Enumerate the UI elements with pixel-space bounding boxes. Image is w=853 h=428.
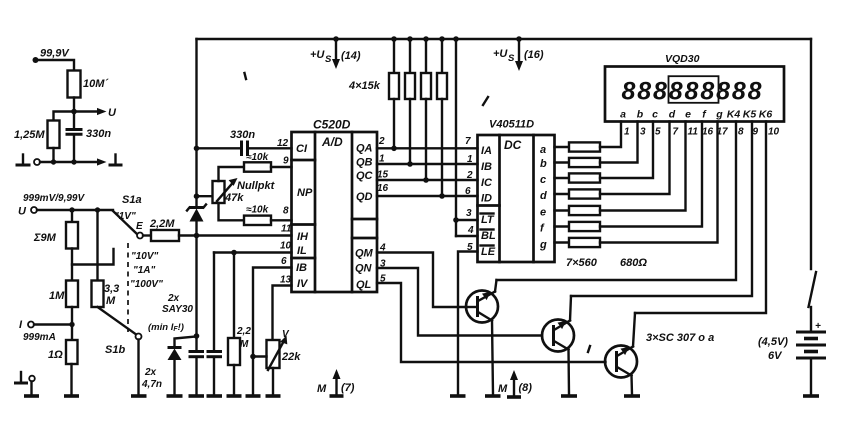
capacitor 4,7n a (141, 352, 204, 397)
op-amp U1 C520D A/D converter (292, 118, 378, 293)
svg-text:SAY30: SAY30 (162, 304, 193, 315)
svg-text:8: 8 (669, 78, 683, 106)
svg-text:V40511D: V40511D (489, 119, 534, 131)
potentiometer 22k (253, 329, 301, 396)
svg-text:7×560: 7×560 (566, 257, 598, 269)
wire pin 10 IL (214, 250, 292, 256)
svg-text:16: 16 (702, 127, 714, 138)
wire (37, 207, 113, 212)
wire node E to pin 11 (179, 233, 292, 239)
svg-text:2,2: 2,2 (236, 326, 251, 337)
svg-text:"100V": "100V" (130, 279, 163, 290)
svg-text:(16): (16) (524, 49, 544, 61)
svg-text:17: 17 (717, 127, 729, 138)
stray mark (588, 346, 590, 352)
display segment labels (620, 109, 772, 121)
svg-text:e: e (540, 207, 546, 219)
svg-text:12: 12 (277, 138, 289, 149)
svg-text:IA: IA (481, 145, 492, 157)
switch S1a position contacts (130, 251, 163, 290)
svg-text:S: S (325, 54, 332, 65)
svg-text:f: f (540, 223, 545, 235)
wire pin 6 IB (246, 268, 292, 397)
svg-text:DC: DC (504, 138, 522, 152)
svg-text:(7): (7) (341, 382, 355, 394)
svg-text:QN: QN (355, 263, 373, 275)
svg-text:8: 8 (738, 127, 744, 138)
svg-text:E: E (136, 221, 143, 232)
svg-text:A/D: A/D (321, 135, 343, 149)
svg-text:22k: 22k (281, 351, 301, 363)
svg-text:10: 10 (768, 127, 780, 138)
svg-text:IV: IV (297, 278, 309, 290)
transistor Q1 (466, 280, 501, 396)
svg-text:7: 7 (673, 127, 679, 138)
svg-text:1: 1 (624, 127, 630, 138)
svg-text:c: c (652, 109, 658, 121)
svg-text:f: f (702, 109, 707, 121)
transistor Q3 (605, 313, 714, 396)
svg-text:8: 8 (653, 78, 667, 106)
switch coupling dashed (127, 243, 129, 332)
svg-text:8: 8 (732, 78, 746, 106)
wire K5 cathode (571, 122, 752, 297)
svg-text:6: 6 (465, 186, 471, 197)
svg-text:4×15k: 4×15k (348, 80, 381, 92)
svg-text:M: M (498, 383, 508, 395)
svg-text:8: 8 (621, 78, 635, 106)
svg-text:CI: CI (296, 143, 308, 155)
resistor 15k c (421, 39, 431, 180)
resistor 560 c (555, 122, 654, 183)
svg-text:S1a: S1a (122, 194, 142, 206)
svg-text:IC: IC (481, 177, 493, 189)
svg-text:2: 2 (466, 170, 473, 181)
resistor 15k a (348, 39, 399, 148)
resistor 15k b (405, 39, 415, 164)
resistor 560 f (555, 122, 703, 232)
svg-text:IB: IB (296, 262, 307, 274)
svg-text:7: 7 (465, 136, 471, 147)
svg-text:3×SC 307 o a: 3×SC 307 o a (646, 332, 714, 344)
wire pin 13 IV (273, 286, 292, 341)
svg-text:QD: QD (356, 191, 373, 203)
svg-text:6V: 6V (768, 350, 783, 362)
wire QN to Q2 base (377, 268, 542, 336)
svg-text:9: 9 (283, 156, 289, 167)
svg-text:g: g (539, 239, 547, 251)
svg-text:"1V": "1V" (114, 211, 136, 222)
wire (194, 236, 200, 352)
svg-text:1Ω: 1Ω (48, 349, 63, 361)
resistor 3,3M (92, 281, 120, 308)
node +Us (14) supply arrow (310, 39, 361, 69)
svg-text:(14): (14) (341, 50, 361, 62)
svg-text:≈10k: ≈10k (246, 152, 269, 163)
svg-text:IH: IH (297, 231, 309, 243)
resistor 1 Ohm (48, 340, 78, 364)
stray mark (245, 73, 247, 79)
resistor 560 b (555, 122, 638, 168)
svg-text:3: 3 (466, 208, 472, 219)
svg-text:QA: QA (356, 143, 373, 155)
svg-text:b: b (540, 158, 547, 170)
svg-text:(4,5V): (4,5V) (758, 336, 788, 348)
svg-text:a: a (620, 109, 626, 121)
wire 3,3M branch (96, 210, 98, 281)
svg-text:2,2M: 2,2M (149, 218, 175, 230)
svg-text:QC: QC (356, 170, 374, 182)
wire (34, 307, 75, 340)
wire (54, 112, 75, 121)
node 99,9V terminal (33, 48, 71, 64)
svg-text:c: c (540, 174, 546, 186)
svg-text:Nullpkt: Nullpkt (237, 180, 276, 192)
resistor 10M (68, 71, 110, 98)
resistor 1,25M (14, 121, 60, 149)
ground input terminal (14, 372, 39, 396)
node U output (71, 107, 117, 119)
wire LE to ground (450, 252, 478, 397)
svg-text:IB: IB (481, 161, 492, 173)
svg-text:11: 11 (688, 127, 699, 138)
svg-text:5: 5 (655, 127, 661, 138)
svg-text:1: 1 (467, 154, 473, 165)
resistor 560 e (555, 122, 686, 216)
wire K4 cathode (497, 122, 737, 281)
svg-text:K4: K4 (727, 109, 741, 121)
wire LT BL tie to +Us (453, 39, 477, 236)
svg-text:V: V (282, 329, 290, 340)
svg-text:≈10k: ≈10k (246, 205, 269, 216)
svg-text:999mA: 999mA (23, 332, 56, 343)
svg-text:4: 4 (467, 225, 474, 236)
svg-text:2x: 2x (144, 367, 157, 378)
node I input (19, 319, 56, 343)
node U input (18, 193, 85, 218)
svg-text:a: a (540, 144, 546, 156)
svg-text:ID: ID (481, 193, 492, 205)
wire K6 cathode (635, 122, 766, 314)
svg-text:S: S (508, 53, 515, 64)
wire (36, 60, 75, 71)
svg-text:9: 9 (753, 127, 759, 138)
diode SAY30 (148, 293, 195, 396)
svg-text:999mV/9,99V: 999mV/9,99V (23, 193, 85, 204)
svg-text:U: U (18, 206, 27, 218)
svg-text:2x: 2x (167, 293, 180, 304)
resistor 560 g (555, 122, 718, 270)
resistor 10k upper (219, 152, 292, 181)
svg-text:e: e (685, 109, 691, 121)
svg-text:11: 11 (281, 224, 292, 235)
svg-text:M: M (240, 339, 249, 350)
svg-text:+: + (815, 321, 821, 332)
wire (52, 148, 54, 162)
svg-text:C520D: C520D (313, 118, 351, 132)
switch S1a blade (113, 194, 142, 234)
potentiometer 47k Nullpkt (197, 178, 276, 204)
wire left supply rail (194, 39, 200, 208)
svg-text:10: 10 (280, 241, 292, 252)
wire (131, 340, 147, 397)
svg-text:3: 3 (640, 127, 646, 138)
capacitor 330n integrator (197, 129, 292, 156)
wire QM to Q1 base (377, 253, 466, 308)
svg-text:I: I (19, 319, 23, 331)
wire QL to Q3 base (377, 283, 606, 362)
transistor Q2 (542, 296, 577, 396)
display pin numbers (624, 127, 780, 138)
svg-text:+U: +U (310, 49, 325, 61)
resistor 560 d (555, 122, 670, 199)
svg-text:3,3: 3,3 (104, 283, 119, 295)
resistor 2,2M filter (227, 253, 252, 397)
svg-text:d: d (540, 190, 547, 202)
svg-text:QB: QB (356, 157, 373, 169)
ground left terminal (16, 155, 41, 166)
svg-text:8: 8 (685, 78, 699, 106)
svg-text:5: 5 (467, 242, 473, 253)
capacitor 4,7n b (207, 253, 223, 397)
svg-text:1,25M: 1,25M (14, 129, 45, 141)
resistor 560 a (555, 122, 622, 152)
svg-text:b: b (637, 109, 644, 121)
svg-text:Σ9M: Σ9M (33, 232, 57, 244)
svg-text:8: 8 (700, 78, 714, 106)
wire 10V tap (72, 249, 114, 281)
zener diode (187, 205, 206, 236)
ground right symbol (109, 155, 123, 166)
resistor 2,2M input (143, 218, 179, 241)
svg-text:2: 2 (378, 136, 385, 147)
svg-text:IL: IL (297, 245, 307, 257)
wire (73, 98, 75, 112)
wire +Us top rail (197, 36, 812, 42)
svg-text:(8): (8) (519, 382, 533, 394)
svg-text:M: M (106, 295, 116, 307)
svg-text:LE: LE (481, 246, 496, 258)
switch S1b blade (98, 307, 136, 356)
svg-text:g: g (715, 109, 723, 121)
svg-text:NP: NP (297, 187, 313, 199)
svg-text:QM: QM (355, 248, 374, 260)
display VQD30 (605, 53, 784, 122)
svg-text:330n: 330n (230, 129, 255, 141)
svg-text:VQD30: VQD30 (665, 53, 700, 65)
svg-text:330n: 330n (86, 128, 111, 140)
svg-text:K5: K5 (743, 109, 757, 121)
svg-text:K6: K6 (759, 109, 773, 121)
svg-text:1M: 1M (49, 290, 65, 302)
battery 4,5V 6V (758, 321, 826, 362)
display digits (621, 78, 761, 106)
svg-text:8: 8 (748, 78, 762, 106)
svg-text:10M´: 10M´ (83, 78, 109, 90)
wire QD to ID (377, 193, 478, 199)
svg-text:680Ω: 680Ω (620, 257, 647, 269)
svg-text:6: 6 (281, 256, 287, 267)
op-amp U2 V40511D decoder (478, 119, 555, 263)
svg-text:QL: QL (356, 279, 372, 291)
svg-text:BL: BL (481, 230, 496, 242)
capacitor 330n (66, 112, 112, 163)
svg-text:S1b: S1b (105, 344, 125, 356)
svg-text:47k: 47k (224, 192, 244, 204)
svg-text:"1A": "1A" (133, 265, 156, 276)
wire battery to ground (803, 358, 819, 396)
switch S1b contact (136, 334, 142, 340)
svg-text:(min IF!): (min IF!) (148, 322, 184, 333)
resistor 1M (49, 281, 78, 308)
resistor 15k d (437, 39, 447, 196)
node M (7) ground reference (317, 369, 355, 396)
svg-text:"10V": "10V" (131, 251, 159, 262)
stray mark (483, 97, 488, 105)
svg-text:13: 13 (280, 275, 292, 286)
svg-text:99,9V: 99,9V (40, 48, 70, 60)
svg-text:LT: LT (481, 214, 495, 226)
svg-text:+U: +U (493, 48, 508, 60)
resistor 9M (33, 210, 78, 249)
ground under 1 Ohm (64, 364, 79, 396)
wire QA to IA (377, 146, 478, 152)
display active digit frame (669, 76, 719, 103)
resistor 10k lower (219, 203, 292, 225)
svg-text:M: M (317, 383, 327, 395)
svg-text:8: 8 (283, 206, 289, 217)
wire (40, 158, 107, 165)
wire battery rail (810, 39, 812, 269)
svg-text:16: 16 (377, 183, 389, 194)
switch S1a contact E (136, 221, 143, 239)
svg-text:U: U (108, 107, 117, 119)
svg-text:8: 8 (637, 78, 651, 106)
svg-text:d: d (669, 109, 676, 121)
node +Us (16) supply arrow (493, 39, 544, 71)
wire QC to IC (377, 177, 478, 183)
switch battery (809, 272, 817, 331)
wire QB to IB (377, 161, 478, 167)
svg-text:4,7n: 4,7n (141, 379, 162, 390)
node M (8) ground reference (498, 370, 532, 397)
